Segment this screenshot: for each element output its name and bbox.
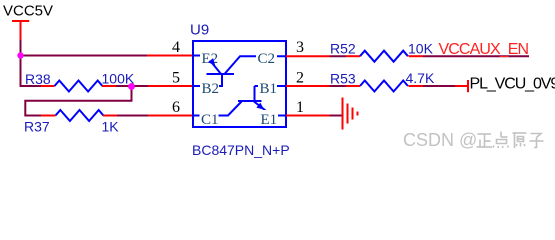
port entry stub (455, 85, 468, 87)
svg-text:C2: C2 (258, 51, 276, 67)
pin name B2 (200, 80, 219, 97)
wire R53 to port (423, 85, 455, 87)
wire node A down to R38 (21, 56, 42, 87)
svg-text:6: 6 (172, 99, 180, 116)
port tick (467, 80, 469, 92)
svg-text:10K: 10K (408, 41, 434, 57)
collector lead to C2 (225, 56, 287, 74)
power symbol VCC5V (12, 21, 29, 41)
resistor R38 (41, 81, 116, 92)
svg-text:B1: B1 (260, 81, 278, 97)
node A junction dot (17, 52, 23, 58)
pin 1 stub (286, 115, 330, 117)
svg-text:CSDN @: CSDN @ (403, 130, 477, 150)
base lead to B2 (193, 73, 222, 86)
svg-text:VCC5V: VCC5V (3, 3, 53, 20)
pin 3 stub (286, 55, 330, 57)
pin name C2 (256, 50, 277, 67)
pin 2 stub (286, 85, 330, 87)
node B junction dot (128, 83, 135, 90)
svg-text:B2: B2 (202, 81, 220, 97)
wire pin1 to ground (330, 115, 343, 117)
emitter lead E2 (193, 56, 221, 75)
svg-text:3: 3 (296, 39, 304, 56)
pin 4 stub (147, 55, 193, 57)
base lead to B1 (255, 86, 287, 101)
transistor Q1 NPN (lower) (193, 86, 286, 116)
wire R38 to node B (116, 85, 148, 87)
svg-text:C1: C1 (201, 112, 219, 128)
svg-text:4: 4 (172, 39, 180, 56)
wire pin3 to R52 (330, 55, 347, 57)
watermark glyph zi (530, 134, 544, 148)
svg-text:E2: E2 (202, 51, 219, 67)
svg-text:1: 1 (296, 99, 304, 116)
svg-text:R53: R53 (330, 71, 356, 87)
transistor Q2 PNP (upper) (193, 56, 286, 87)
pin name E2 (200, 50, 219, 67)
watermark glyph dian (493, 132, 509, 149)
resistor R53 (346, 81, 423, 92)
ground symbol (343, 98, 358, 130)
svg-text:2: 2 (296, 70, 304, 87)
NPN arrow on emitter of Q1 (256, 103, 264, 110)
watermark glyph yuan (513, 133, 527, 148)
svg-text:VCCAUX_EN: VCCAUX_EN (439, 41, 529, 58)
svg-text:R38: R38 (25, 71, 51, 87)
pin name B1 (258, 80, 277, 97)
wire node B to pin 5 (148, 85, 193, 87)
wire pin2 to R53 (330, 85, 347, 87)
op U9 transistor array box (193, 41, 286, 127)
svg-text:BC847PN_N+P: BC847PN_N+P (192, 142, 290, 158)
wire R37 to pin 6 (117, 115, 148, 117)
svg-text:E1: E1 (261, 112, 278, 128)
pin 6 stub (148, 115, 193, 117)
pin name C1 (200, 110, 219, 128)
svg-text:R37: R37 (24, 119, 50, 135)
watermark glyph zheng (477, 134, 493, 147)
wire VCC vertical to node A (20, 40, 22, 56)
svg-text:4.7K: 4.7K (406, 70, 435, 86)
wire node A to pin 4 (21, 55, 148, 57)
svg-text:1K: 1K (102, 119, 120, 135)
resistor R52 (346, 51, 423, 62)
wire node B down-left to R37 (25, 86, 131, 116)
svg-text:5: 5 (172, 70, 180, 87)
svg-text:PL_VCU_0V9: PL_VCU_0V9 (470, 76, 555, 93)
resistor R37 (41, 110, 117, 121)
svg-text:U9: U9 (190, 22, 209, 39)
collector lead to C1 (193, 102, 242, 116)
svg-text:R52: R52 (330, 41, 356, 57)
wire R52 to net label (423, 55, 529, 57)
emitter lead to E1 (254, 102, 286, 116)
base bar (207, 73, 235, 75)
pin name E1 (259, 110, 278, 128)
PNP arrow on emitter of Q2 (208, 58, 215, 66)
base bar (238, 100, 262, 102)
